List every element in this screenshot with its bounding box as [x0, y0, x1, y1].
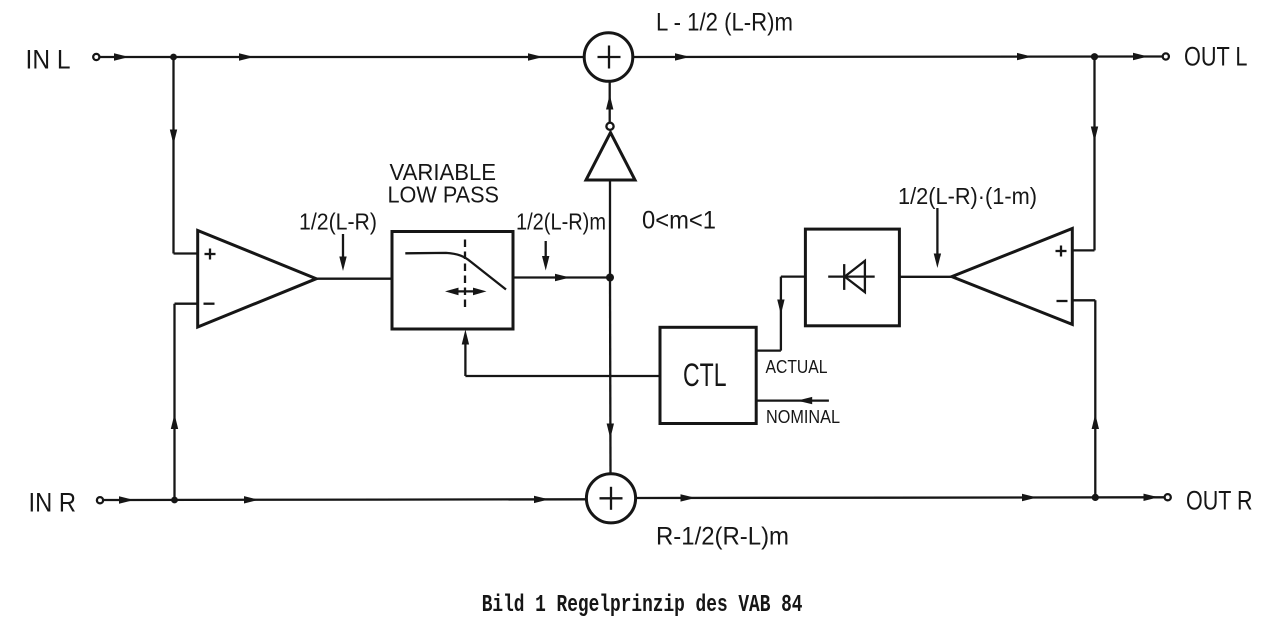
wire IN L to summer S1: [100, 53, 584, 60]
junction node E (OUT R tap): [1092, 494, 1099, 501]
plus sign of S1: [598, 46, 621, 69]
FL1 cutoff dashed line: [464, 240, 466, 309]
op-amp U1 (left subtractor): [198, 231, 317, 328]
U3 output bubble: [606, 123, 613, 130]
svg-text:R-1/2(R-L)m: R-1/2(R-L)m: [656, 523, 789, 551]
wire U3 to summer S1: [606, 82, 613, 123]
summing junction S2: [586, 474, 635, 523]
pin label - of U2: [1057, 300, 1068, 302]
wire S1 to OUT L: [633, 53, 1163, 61]
svg-text:1/2(L-R)·(1-m): 1/2(L-R)·(1-m): [898, 183, 1037, 209]
svg-text:OUT L: OUT L: [1184, 42, 1248, 72]
wire node B up to buffer U3: [609, 180, 611, 278]
plus sign of S2: [600, 487, 623, 510]
arrow from label 1/2(L-R)·(1-m): [934, 208, 941, 268]
buffer amp U3: [586, 133, 635, 181]
rectifier D1 box: [805, 229, 899, 326]
terminal OUT L: [1163, 53, 1169, 59]
wire right rail down to U2 + input: [1072, 57, 1098, 251]
svg-text:ACTUAL: ACTUAL: [766, 357, 828, 377]
pin label + of U1: [205, 249, 216, 260]
svg-text:1/2(L-R)m: 1/2(L-R)m: [516, 209, 606, 235]
svg-text:IN R: IN R: [29, 488, 77, 518]
terminal OUT R: [1165, 494, 1171, 500]
svg-text:NOMINAL: NOMINAL: [766, 407, 840, 427]
diode D1: [828, 261, 875, 292]
summing junction S1: [584, 33, 633, 82]
FL1 response curve: [405, 253, 506, 290]
svg-text:CTL: CTL: [683, 357, 727, 393]
pin label - of U1: [204, 303, 215, 305]
arrow from label 1/2(L-R)m: [542, 241, 549, 271]
wire left rail down to U1 + input: [170, 57, 198, 254]
variable low pass FL1 box: [392, 232, 513, 330]
wire D1 to CTL actual input: [756, 277, 805, 351]
wire IN R to summer S2: [103, 496, 586, 504]
svg-text:1/2(L-R): 1/2(L-R): [299, 209, 377, 235]
terminal IN L: [93, 54, 99, 60]
svg-text:L - 1/2 (L-R)m: L - 1/2 (L-R)m: [656, 9, 793, 37]
junction node B (center tap): [606, 274, 614, 282]
junction node C (OUT L tap): [1091, 53, 1098, 60]
pin label + of U2: [1056, 246, 1067, 257]
wire IN R rail up to U1 - input: [171, 304, 198, 500]
wire NOMINAL input: [756, 397, 829, 404]
control block CTL: [660, 327, 756, 423]
wire U1 output to lowpass FL1: [316, 278, 392, 280]
svg-text:OUT R: OUT R: [1186, 486, 1253, 516]
terminal IN R: [97, 497, 103, 503]
arrow from label 1/2(L-R): [339, 234, 346, 271]
wire FL1 output to node B: [513, 274, 610, 281]
svg-text:0<m<1: 0<m<1: [642, 207, 716, 235]
svg-text:Bild 1 Regelprinzip des VAB 8: Bild 1 Regelprinzip des VAB 84: [482, 592, 803, 619]
wire U2 output to rectifier D1: [899, 276, 951, 278]
wire node B down to summer S2: [607, 278, 614, 475]
FL1 tuning double arrow: [445, 288, 487, 296]
junction node A (IN L tap): [170, 54, 177, 61]
wire OUT R rail up to U2 - input: [1072, 300, 1099, 497]
svg-text:IN L: IN L: [26, 45, 71, 75]
svg-text:LOW PASS: LOW PASS: [388, 182, 500, 208]
wire CTL output to FL1 control: [462, 330, 660, 377]
wire S2 to OUT R: [636, 494, 1165, 502]
junction node D (IN R tap): [171, 497, 178, 504]
op-amp U2 (right subtractor): [952, 229, 1073, 325]
